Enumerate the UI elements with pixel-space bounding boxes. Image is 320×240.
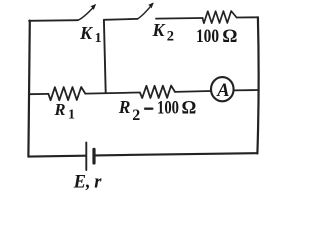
wire top segment to switch K1 [29,19,78,22]
svg-text:2: 2 [167,29,174,45]
battery cell short plate [92,149,95,163]
svg-text:2: 2 [132,107,140,124]
wire left edge [28,21,29,157]
svg-text:K: K [79,23,94,43]
svg-text:1: 1 [68,107,75,122]
svg-text:R: R [118,97,131,117]
dash between R2 and 100 ohm [145,107,152,109]
wire bottom segment to battery [28,155,86,158]
wire top right to corner [237,16,258,18]
ammeter A (circle) [211,77,234,101]
switch K2 lever with arrowhead [138,3,154,19]
svg-text:E,: E, [73,173,91,193]
svg-text:r: r [94,173,102,193]
switch K1 lever with arrowhead [78,4,96,20]
svg-text:A: A [216,81,229,101]
resistor R2 zigzag [140,86,175,98]
wire middle segment to ammeter [175,90,211,93]
wire junction vertical (node between K1 and R2 branches) [104,20,106,93]
wire middle segment from left edge [29,93,48,95]
resistor 100 ohm (top) zigzag [203,11,237,23]
svg-text:R: R [54,100,66,119]
svg-text:Ω: Ω [222,26,237,47]
wire bottom segment from battery to right corner [96,153,258,155]
svg-text:100: 100 [157,99,179,119]
svg-text:K: K [152,20,167,40]
wire middle segment between R1 and R2 [85,93,140,94]
wire right edge [257,17,258,153]
svg-text:Ω: Ω [182,99,197,119]
battery cell long plate [85,143,87,171]
svg-text:100: 100 [196,26,219,47]
wire top segment after K2 [156,17,203,20]
wire top segment to switch K2 [104,18,138,21]
svg-text:1: 1 [95,31,102,46]
resistor R1 zigzag [48,87,85,100]
wire ammeter to right edge [234,89,259,91]
